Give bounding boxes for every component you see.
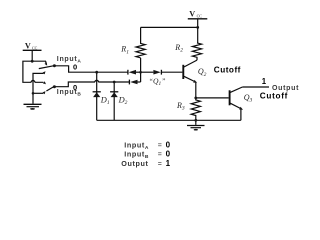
svg-text:1: 1	[166, 159, 171, 168]
svg-text:=: =	[158, 151, 162, 158]
svg-text:CC: CC	[197, 14, 203, 19]
svg-text:0: 0	[166, 150, 171, 159]
svg-text:Cutoff: Cutoff	[214, 65, 241, 74]
svg-text:0: 0	[166, 141, 171, 150]
svg-text:=: =	[158, 142, 162, 149]
svg-text:0: 0	[73, 63, 77, 72]
svg-text:1: 1	[262, 77, 267, 86]
svg-text:Output: Output	[121, 159, 148, 168]
svg-text:CC: CC	[32, 46, 38, 51]
svg-text:V: V	[189, 9, 195, 18]
svg-text:Cutoff: Cutoff	[260, 91, 288, 100]
svg-text:=: =	[158, 161, 162, 168]
svg-text:Output: Output	[272, 85, 299, 92]
svg-text:V: V	[25, 41, 31, 50]
